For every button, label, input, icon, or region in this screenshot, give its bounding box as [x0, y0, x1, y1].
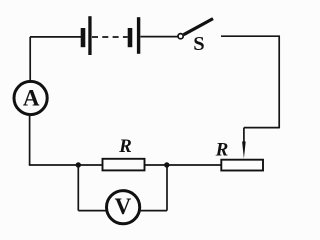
rheostat wiper arrow: [242, 128, 246, 159]
wire bottom-middle horizontal: [145, 164, 222, 166]
label S of switch: [193, 33, 204, 55]
switch S pivot: [178, 34, 183, 39]
wire voltmeter branch right vertical: [166, 165, 168, 211]
label R of fixed resistor: [118, 136, 132, 157]
wire right vertical: [278, 36, 280, 128]
wire left vertical lower: [29, 114, 31, 165]
resistor R (fixed): [103, 159, 145, 171]
wire wiper jog horizontal: [244, 127, 279, 129]
voltmeter V: [107, 191, 140, 224]
battery cell 1 long thin plate: [88, 16, 91, 55]
battery cell 2 short thick plate: [128, 28, 133, 47]
ammeter A: [14, 81, 47, 114]
battery cell 1 short thick plate: [81, 28, 86, 47]
svg-text:A: A: [23, 85, 40, 110]
wire voltmeter branch bottom-left horizontal: [78, 210, 107, 212]
svg-text:R: R: [215, 140, 229, 161]
junction node right: [164, 162, 169, 167]
rheostat R (variable resistor): [221, 160, 263, 171]
wire left vertical upper: [29, 37, 31, 82]
junction node left: [76, 162, 81, 167]
battery cell 2 long thin plate: [137, 17, 140, 54]
label R of rheostat: [215, 140, 229, 161]
wire top-right horizontal: [221, 35, 280, 37]
wire switch-to-battery: [140, 36, 178, 38]
svg-text:R: R: [118, 136, 132, 157]
wire voltmeter branch bottom-right horizontal: [139, 210, 167, 212]
wire dashed between cells: [92, 36, 128, 38]
wire voltmeter branch left vertical: [77, 165, 79, 211]
svg-text:V: V: [115, 194, 132, 219]
svg-text:S: S: [193, 33, 204, 55]
wire top-left horizontal: [30, 36, 82, 38]
wire bottom-left horizontal: [29, 164, 103, 166]
switch S blade: [184, 19, 213, 35]
